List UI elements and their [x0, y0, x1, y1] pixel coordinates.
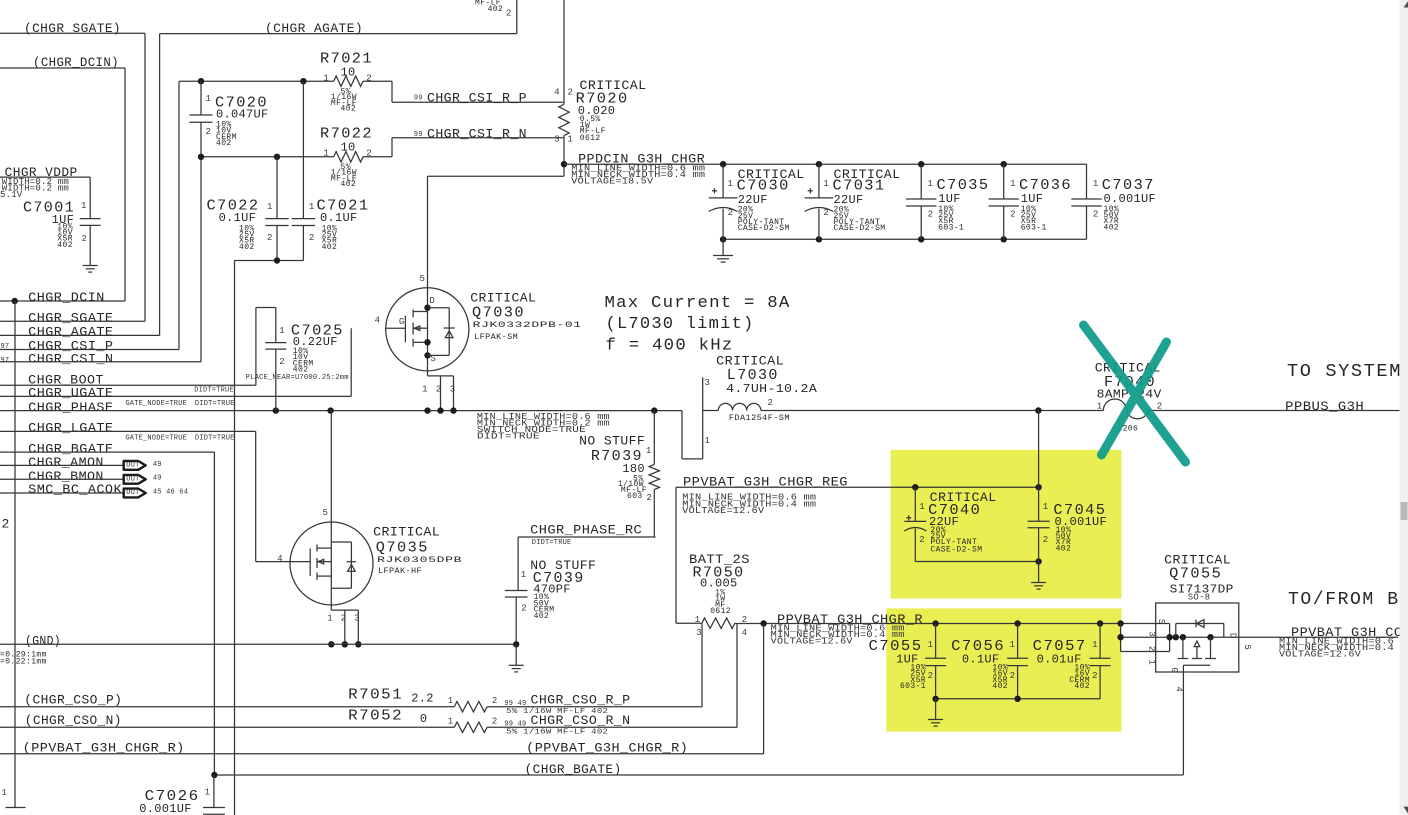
svg-text:CHGR_CSI_R_P: CHGR_CSI_R_P — [427, 91, 527, 106]
svg-text:4: 4 — [375, 315, 380, 325]
svg-text:NO STUFF: NO STUFF — [579, 433, 645, 448]
svg-text:SMC_BC_ACOK: SMC_BC_ACOK — [28, 482, 122, 497]
svg-text:1: 1 — [1010, 640, 1015, 650]
svg-text:1: 1 — [206, 94, 211, 104]
svg-text:1: 1 — [928, 640, 933, 650]
svg-text:5% 1/16W MF-LF 402: 5% 1/16W MF-LF 402 — [506, 729, 608, 737]
svg-text:1: 1 — [1010, 179, 1015, 189]
svg-text:3: 3 — [705, 378, 710, 388]
svg-text:0612: 0612 — [580, 134, 601, 143]
svg-text:2: 2 — [647, 493, 653, 503]
svg-text:OUT: OUT — [126, 476, 139, 484]
svg-text:2: 2 — [928, 210, 933, 220]
svg-text:2: 2 — [823, 208, 828, 218]
svg-text:2: 2 — [279, 357, 284, 367]
svg-text:45 46 64: 45 46 64 — [153, 488, 188, 496]
svg-text:402: 402 — [1104, 223, 1120, 232]
svg-text:0.001UF: 0.001UF — [139, 802, 192, 815]
svg-text:1: 1 — [279, 326, 284, 336]
svg-text:402: 402 — [534, 612, 550, 621]
svg-text:10: 10 — [341, 141, 356, 155]
svg-text:CHGR_UGATE: CHGR_UGATE — [28, 386, 113, 401]
svg-text:FDA1254F-SM: FDA1254F-SM — [729, 414, 790, 423]
svg-text:1: 1 — [448, 716, 453, 726]
svg-text:=0.22:1mm: =0.22:1mm — [0, 658, 47, 667]
svg-text:1: 1 — [823, 179, 828, 189]
svg-text:DIDT=TRUE: DIDT=TRUE — [195, 400, 235, 408]
svg-text:0: 0 — [420, 712, 428, 726]
svg-text:PPBUS_G3H: PPBUS_G3H — [1285, 399, 1364, 414]
svg-text:1: 1 — [1092, 640, 1097, 650]
svg-text:S: S — [1156, 619, 1166, 624]
svg-text:2: 2 — [1157, 401, 1162, 411]
svg-text:2: 2 — [768, 398, 773, 408]
svg-text:5: 5 — [1242, 644, 1252, 649]
svg-text:1: 1 — [1147, 659, 1157, 664]
svg-text:2: 2 — [267, 233, 272, 243]
svg-text:97: 97 — [1, 357, 10, 365]
svg-text:2: 2 — [1093, 210, 1098, 220]
svg-text:1: 1 — [1043, 502, 1048, 512]
svg-text:603: 603 — [627, 492, 643, 501]
svg-text:CRITICAL: CRITICAL — [373, 525, 440, 540]
svg-text:Q7035: Q7035 — [376, 540, 429, 557]
svg-text:CRITICAL: CRITICAL — [470, 291, 536, 306]
svg-text:1: 1 — [81, 201, 86, 211]
svg-text:2: 2 — [206, 127, 211, 137]
svg-text:CASE-D2-SM: CASE-D2-SM — [738, 224, 790, 233]
svg-text:402: 402 — [57, 241, 73, 250]
svg-text:0612: 0612 — [710, 607, 731, 616]
svg-text:2: 2 — [1010, 671, 1015, 681]
svg-text:1: 1 — [267, 202, 272, 212]
svg-text:2: 2 — [1092, 671, 1097, 681]
svg-text:2: 2 — [919, 535, 924, 545]
svg-text:603-1: 603-1 — [900, 682, 926, 691]
svg-text:TO SYSTEM: TO SYSTEM — [1287, 361, 1402, 382]
svg-text:402: 402 — [992, 682, 1008, 691]
svg-text:G: G — [1169, 667, 1179, 672]
svg-text:SO-8: SO-8 — [1188, 593, 1210, 603]
svg-text:VOLTAGE=18.5V: VOLTAGE=18.5V — [571, 177, 653, 187]
svg-text:LFPAK-HF: LFPAK-HF — [378, 567, 422, 576]
svg-text:(L7030 limit): (L7030 limit) — [606, 315, 755, 334]
svg-text:2: 2 — [492, 716, 497, 726]
svg-text:RJK0305DPB: RJK0305DPB — [377, 556, 462, 565]
svg-text:(CHGR_CSO_N): (CHGR_CSO_N) — [25, 713, 122, 728]
svg-text:2: 2 — [742, 615, 747, 625]
svg-text:OUT: OUT — [126, 489, 139, 497]
svg-text:1: 1 — [728, 179, 733, 189]
svg-text:DIDT=TRUE: DIDT=TRUE — [477, 432, 540, 442]
svg-text:1: 1 — [521, 570, 526, 580]
svg-text:(CHGR_CSO_P): (CHGR_CSO_P) — [24, 692, 122, 707]
svg-text:1: 1 — [2, 788, 7, 798]
svg-text:CASE-D2-SM: CASE-D2-SM — [834, 224, 886, 233]
svg-text:2: 2 — [492, 696, 497, 706]
svg-text:603-1: 603-1 — [938, 223, 964, 232]
svg-text:4: 4 — [742, 628, 747, 638]
svg-text:CHGR_CSI_N: CHGR_CSI_N — [28, 351, 113, 366]
svg-text:1: 1 — [448, 696, 453, 706]
svg-text:CHGR_PHASE_RC: CHGR_PHASE_RC — [530, 522, 642, 537]
svg-text:VOLTAGE=12.6V: VOLTAGE=12.6V — [1279, 650, 1361, 660]
svg-text:4: 4 — [1174, 686, 1184, 691]
svg-text:1: 1 — [568, 135, 573, 145]
svg-text:C7031: C7031 — [833, 177, 886, 194]
svg-text:3: 3 — [554, 135, 559, 145]
svg-text:5: 5 — [420, 274, 425, 284]
svg-text:DIDT=TRUE: DIDT=TRUE — [194, 387, 234, 395]
svg-text:2: 2 — [366, 73, 371, 83]
svg-text:4.7UH-10.2A: 4.7UH-10.2A — [726, 382, 818, 396]
svg-text:D: D — [429, 296, 434, 306]
svg-text:TO/FROM BA: TO/FROM BA — [1288, 589, 1408, 610]
svg-text:DIDT=TRUE: DIDT=TRUE — [532, 539, 572, 547]
svg-text:PLACE_NEAR=U7000.25:2mm: PLACE_NEAR=U7000.25:2mm — [246, 374, 349, 382]
svg-text:0.1UF: 0.1UF — [320, 211, 358, 225]
svg-text:402: 402 — [341, 180, 357, 189]
svg-text:1: 1 — [309, 202, 314, 212]
svg-text:402: 402 — [1074, 682, 1090, 691]
svg-text:D: D — [1228, 633, 1238, 638]
svg-text:GATE_NODE=TRUE: GATE_NODE=TRUE — [125, 400, 187, 408]
svg-text:2: 2 — [1010, 210, 1015, 220]
svg-text:Q7055: Q7055 — [1169, 566, 1222, 583]
svg-text:4: 4 — [277, 554, 282, 564]
svg-text:OUT: OUT — [126, 462, 139, 470]
svg-text:VOLTAGE=12.6V: VOLTAGE=12.6V — [771, 637, 853, 647]
svg-text:RJK0332DPB-01: RJK0332DPB-01 — [473, 321, 582, 330]
svg-text:C7030: C7030 — [737, 177, 790, 194]
svg-text:99 49: 99 49 — [504, 700, 526, 708]
svg-text:2: 2 — [341, 613, 346, 623]
svg-text:CHGR_PHASE: CHGR_PHASE — [28, 400, 113, 415]
svg-text:1: 1 — [646, 446, 651, 456]
svg-text:3: 3 — [1147, 631, 1157, 636]
svg-text:2: 2 — [568, 87, 573, 97]
svg-text:1: 1 — [323, 73, 328, 83]
svg-text:49: 49 — [153, 475, 162, 483]
svg-text:1: 1 — [928, 179, 933, 189]
svg-text:1: 1 — [705, 436, 710, 446]
svg-text:402: 402 — [341, 105, 357, 114]
svg-text:CHGR_CSO_R_P: CHGR_CSO_R_P — [531, 692, 631, 707]
svg-text:10: 10 — [341, 65, 356, 79]
svg-text:DIDT=TRUE: DIDT=TRUE — [195, 435, 235, 443]
svg-text:99: 99 — [414, 95, 423, 103]
svg-text:CHGR_AGATE: CHGR_AGATE — [28, 324, 113, 339]
svg-text:2: 2 — [928, 671, 933, 681]
svg-text:2: 2 — [82, 234, 87, 244]
svg-text:3: 3 — [354, 613, 359, 623]
svg-text:3: 3 — [696, 628, 701, 638]
svg-text:402: 402 — [216, 139, 232, 148]
svg-text:CHGR_CSO_R_N: CHGR_CSO_R_N — [531, 713, 631, 728]
svg-text:402: 402 — [1056, 544, 1072, 553]
svg-text:0.1UF: 0.1UF — [219, 211, 257, 225]
svg-text:2: 2 — [1043, 535, 1048, 545]
svg-text:2: 2 — [728, 208, 733, 218]
svg-text:(GND): (GND) — [25, 633, 61, 648]
svg-text:2.2: 2.2 — [411, 691, 434, 705]
svg-text:1: 1 — [205, 787, 210, 797]
svg-text:402: 402 — [239, 243, 255, 252]
svg-text:CHGR_CSI_R_N: CHGR_CSI_R_N — [427, 127, 527, 142]
svg-text:1: 1 — [695, 615, 700, 625]
svg-text:402: 402 — [488, 5, 504, 14]
svg-text:CHGR_DCIN: CHGR_DCIN — [28, 290, 105, 305]
svg-text:2: 2 — [506, 9, 512, 19]
svg-text:99: 99 — [414, 131, 423, 139]
svg-text:1: 1 — [327, 613, 332, 623]
svg-text:R7052: R7052 — [348, 707, 403, 724]
svg-text:2: 2 — [309, 233, 314, 243]
svg-text:LFPAK-SM: LFPAK-SM — [474, 333, 518, 342]
svg-text:1: 1 — [422, 385, 427, 395]
svg-text:49: 49 — [153, 461, 162, 469]
svg-text:f = 400 kHz: f = 400 kHz — [606, 337, 734, 356]
svg-text:5.1V: 5.1V — [0, 190, 23, 200]
svg-text:G: G — [399, 317, 404, 327]
svg-text:2: 2 — [521, 603, 526, 613]
svg-text:CHGR_LGATE: CHGR_LGATE — [28, 420, 113, 435]
svg-text:1: 1 — [1093, 179, 1098, 189]
svg-text:Max Current = 8A: Max Current = 8A — [605, 294, 791, 313]
svg-text:603-1: 603-1 — [1021, 223, 1047, 232]
svg-text:3: 3 — [450, 385, 455, 395]
svg-text:GATE_NODE=TRUE: GATE_NODE=TRUE — [125, 435, 187, 443]
svg-text:402: 402 — [322, 243, 338, 252]
svg-text:1: 1 — [1097, 401, 1102, 411]
svg-text:2: 2 — [2, 516, 10, 531]
svg-text:CASE-D2-SM: CASE-D2-SM — [930, 546, 982, 555]
svg-text:1: 1 — [919, 502, 924, 512]
svg-text:PPVBAT_G3H_CHGR_REG: PPVBAT_G3H_CHGR_REG — [683, 474, 848, 489]
svg-text:2: 2 — [436, 385, 441, 395]
svg-text:Q7030: Q7030 — [472, 305, 525, 322]
svg-text:CHGR_AMON: CHGR_AMON — [28, 455, 104, 470]
svg-text:CHGR_SGATE: CHGR_SGATE — [28, 310, 113, 325]
svg-text:0.047UF: 0.047UF — [216, 107, 269, 121]
svg-text:5: 5 — [323, 508, 328, 518]
svg-text:VOLTAGE=12.6V: VOLTAGE=12.6V — [682, 506, 764, 516]
svg-text:2: 2 — [1147, 646, 1157, 651]
svg-text:4: 4 — [554, 87, 559, 97]
svg-text:99 49: 99 49 — [504, 721, 526, 729]
svg-text:R7051: R7051 — [348, 687, 403, 704]
